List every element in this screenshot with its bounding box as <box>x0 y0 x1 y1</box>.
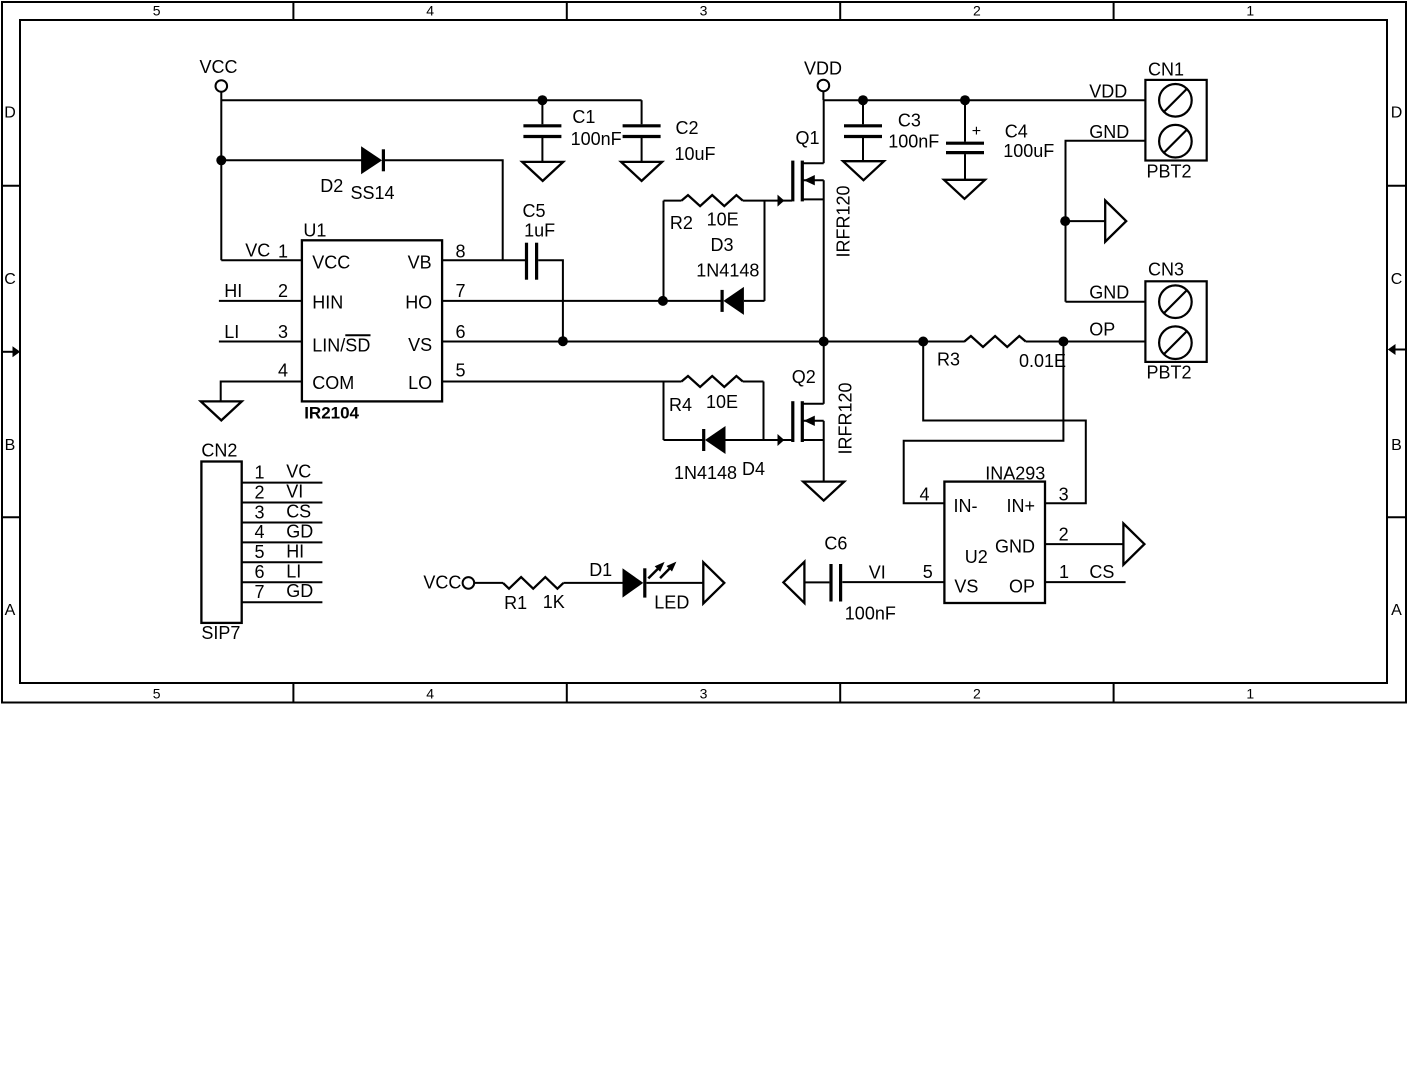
svg-text:3: 3 <box>700 2 708 18</box>
svg-text:GND: GND <box>995 537 1035 557</box>
wire R1 to D1 <box>563 582 622 584</box>
transistor Q1 IRFR120 <box>793 128 854 258</box>
wire GND to CN3 pin 1 <box>1066 282 1146 302</box>
svg-text:GND: GND <box>1089 282 1129 302</box>
svg-text:VC: VC <box>245 240 270 260</box>
capacitor C3 100nF <box>844 100 939 161</box>
svg-text:A: A <box>5 602 16 619</box>
connector CN1 PBT2 <box>1145 60 1206 182</box>
svg-text:VDD: VDD <box>804 59 842 79</box>
junction Q1 source / VS <box>819 337 829 347</box>
U2 pin 3 number <box>1059 485 1069 505</box>
wire VCC rail <box>221 99 641 101</box>
svg-text:LO: LO <box>408 373 432 393</box>
ground C3 <box>843 161 884 180</box>
wire VS rail <box>442 341 965 343</box>
U1 pin 3 LIN stub, net LI <box>219 322 302 342</box>
svg-text:2: 2 <box>973 2 981 18</box>
power flag VCC <box>200 57 238 92</box>
svg-text:VCC: VCC <box>312 252 350 272</box>
svg-text:2: 2 <box>254 482 264 502</box>
svg-text:Q2: Q2 <box>792 367 816 387</box>
svg-text:HI: HI <box>224 281 242 301</box>
junction HO/D3 <box>658 296 668 306</box>
wire VDD rail <box>823 99 1145 101</box>
svg-text:U1: U1 <box>303 220 326 240</box>
svg-text:VCC: VCC <box>200 57 238 77</box>
junction C4 <box>960 95 970 105</box>
svg-text:R1: R1 <box>504 593 527 613</box>
port ground arrow at C6 <box>783 562 804 603</box>
svg-text:IRFR120: IRFR120 <box>834 185 854 257</box>
svg-text:IR2104: IR2104 <box>304 403 359 422</box>
wire IN- sense (R3 right to U2 pin 4) <box>904 342 1064 504</box>
svg-text:1N4148: 1N4148 <box>696 261 759 281</box>
svg-text:100uF: 100uF <box>1003 141 1054 161</box>
wire gate Q2 with arrow <box>764 434 793 446</box>
U1 pin 5 LO wire <box>442 361 663 382</box>
svg-text:100nF: 100nF <box>845 604 896 624</box>
svg-text:D4: D4 <box>742 459 765 479</box>
port LED output arrow <box>703 562 724 603</box>
svg-text:D3: D3 <box>711 235 734 255</box>
svg-text:8: 8 <box>456 241 466 261</box>
svg-text:100nF: 100nF <box>571 129 622 149</box>
U2 pin 1 OP stub, net CS <box>1045 562 1126 582</box>
svg-text:LI: LI <box>224 322 239 342</box>
svg-text:4: 4 <box>426 685 434 701</box>
port GND output arrow <box>1066 201 1127 242</box>
power flag VCC at R1 <box>423 573 474 593</box>
svg-text:VS: VS <box>954 577 978 597</box>
svg-text:6: 6 <box>254 562 264 582</box>
net label VDD at CN1 <box>1089 82 1127 102</box>
U1 pin 7 HO wire <box>442 281 663 301</box>
svg-text:3: 3 <box>254 502 264 522</box>
diode D2 SS14 <box>320 146 394 203</box>
svg-text:SIP7: SIP7 <box>201 623 240 643</box>
svg-text:U2: U2 <box>965 547 988 567</box>
svg-text:CN1: CN1 <box>1148 60 1184 80</box>
svg-text:A: A <box>1391 602 1402 619</box>
wire R3 to CN3 <box>1026 341 1064 343</box>
U1 pin 8 VB stub <box>442 241 525 261</box>
svg-text:CN3: CN3 <box>1148 260 1184 280</box>
power flag VDD <box>804 59 842 101</box>
CN2 pin 6 net LI <box>242 561 323 582</box>
diode D3 1N4148 <box>664 235 765 315</box>
resistor R2 10E <box>664 195 765 301</box>
wire Q2 drain to VS <box>823 342 825 404</box>
wire Q1 source to VS <box>823 180 825 341</box>
wire C5 to VS <box>538 260 563 341</box>
svg-text:6: 6 <box>456 322 466 342</box>
svg-text:C5: C5 <box>523 201 546 221</box>
wire Q1 drain to VDD <box>823 100 825 163</box>
wire VCC to D2 anode <box>221 159 361 161</box>
connector CN2 SIP7 <box>201 441 241 643</box>
svg-text:C: C <box>1391 271 1403 288</box>
svg-text:10E: 10E <box>706 392 738 412</box>
svg-text:+: + <box>972 123 981 140</box>
svg-text:2: 2 <box>973 685 981 701</box>
CN2 pin 1 net VC <box>242 462 323 483</box>
svg-text:IRFR120: IRFR120 <box>836 382 856 454</box>
svg-text:3: 3 <box>1059 485 1069 505</box>
svg-text:1: 1 <box>1246 685 1254 701</box>
svg-text:D: D <box>1391 105 1403 122</box>
svg-text:PBT2: PBT2 <box>1147 363 1192 383</box>
wire gate Q1 with arrow <box>765 195 793 207</box>
svg-text:5: 5 <box>153 2 161 18</box>
svg-text:5: 5 <box>456 361 466 381</box>
svg-text:Q1: Q1 <box>796 128 820 148</box>
svg-text:HO: HO <box>405 293 432 313</box>
junction C3 <box>858 95 868 105</box>
svg-text:3: 3 <box>278 322 288 342</box>
svg-text:5: 5 <box>254 542 264 562</box>
svg-text:COM: COM <box>312 373 354 393</box>
svg-text:SS14: SS14 <box>351 183 395 203</box>
resistor R3 0.01E <box>937 336 1066 371</box>
diode D4 1N4148 <box>664 426 766 483</box>
CN2 pin 7 net GD <box>242 581 323 602</box>
svg-text:10uF: 10uF <box>675 144 716 164</box>
svg-text:PBT2: PBT2 <box>1147 162 1192 182</box>
svg-text:VDD: VDD <box>1089 82 1127 102</box>
CN2 pin 4 net GD <box>242 521 323 542</box>
junction C1 <box>537 95 547 105</box>
svg-text:1: 1 <box>278 241 288 261</box>
U2 pin 4 number <box>920 485 930 505</box>
svg-text:1uF: 1uF <box>524 220 555 240</box>
IC U1 IR2104 gate driver <box>302 220 442 422</box>
svg-text:LI: LI <box>286 561 301 581</box>
junction C5/VS <box>558 336 568 346</box>
svg-text:GND: GND <box>1089 122 1129 142</box>
svg-text:4: 4 <box>254 522 264 542</box>
U1 pin 6 VS stub <box>456 322 466 342</box>
svg-text:INA293: INA293 <box>985 463 1045 483</box>
U1 pin 2 HIN stub, net HI <box>219 281 302 301</box>
resistor R1 1K <box>503 577 565 613</box>
ground C4 <box>944 180 985 199</box>
svg-text:C4: C4 <box>1005 122 1028 142</box>
transistor Q2 IRFR120 <box>792 367 856 455</box>
ground Q2 <box>803 482 844 501</box>
junction VCC/D2 <box>216 155 226 165</box>
IC U2 INA293 current-sense amplifier <box>944 463 1045 603</box>
svg-text:C2: C2 <box>676 118 699 138</box>
svg-text:D2: D2 <box>320 176 343 196</box>
svg-text:CS: CS <box>286 501 311 521</box>
junction R3 right <box>1058 337 1068 347</box>
U1 pin 4 COM stub <box>221 361 302 402</box>
svg-text:4: 4 <box>426 2 434 18</box>
svg-text:VS: VS <box>408 335 432 355</box>
capacitor C2 10uF <box>623 100 716 164</box>
svg-text:VB: VB <box>408 252 432 272</box>
wire VCC vertical to U1 pin 1 <box>220 92 222 260</box>
U2 pin 5 VS stub, net VI <box>842 562 944 583</box>
capacitor C6 100nF <box>824 534 895 624</box>
CN2 pin 3 net CS <box>242 501 323 522</box>
wire OP to CN3 pin 2 <box>1063 320 1145 342</box>
U1 pin 1 VCC stub <box>221 240 302 261</box>
svg-text:4: 4 <box>278 361 288 381</box>
svg-text:7: 7 <box>456 281 466 301</box>
svg-text:10E: 10E <box>707 210 739 230</box>
svg-text:C1: C1 <box>572 107 595 127</box>
U2 pin 2 GND stub <box>1045 524 1123 544</box>
LED D1 <box>589 560 689 613</box>
wire C6 to ground port <box>804 581 829 583</box>
wire VCC to R1 <box>474 582 503 584</box>
capacitor C5 1uF <box>523 201 556 280</box>
svg-text:R4: R4 <box>669 395 692 415</box>
svg-text:C6: C6 <box>824 534 847 554</box>
svg-text:C3: C3 <box>898 110 921 130</box>
svg-text:0.01E: 0.01E <box>1019 351 1066 371</box>
svg-text:OP: OP <box>1009 577 1035 597</box>
svg-text:OP: OP <box>1089 320 1115 340</box>
wire IN+ sense (R3 left to U2 pin 3) <box>923 342 1086 504</box>
svg-text:CN2: CN2 <box>201 441 237 461</box>
svg-text:LIN/SD: LIN/SD <box>312 335 370 355</box>
svg-text:VI: VI <box>869 563 886 583</box>
svg-text:CS: CS <box>1089 562 1114 582</box>
svg-text:B: B <box>5 437 16 454</box>
svg-text:1: 1 <box>254 462 264 482</box>
svg-text:2: 2 <box>278 281 288 301</box>
svg-text:VC: VC <box>286 462 311 482</box>
connector CN3 PBT2 <box>1145 260 1206 383</box>
svg-text:HI: HI <box>286 541 304 561</box>
svg-text:VCC: VCC <box>423 573 461 593</box>
CN2 pin 5 net HI <box>242 541 323 562</box>
ground COM <box>201 401 242 420</box>
svg-text:GD: GD <box>286 581 313 601</box>
svg-text:5: 5 <box>923 562 933 582</box>
svg-text:7: 7 <box>254 582 264 602</box>
svg-text:4: 4 <box>920 485 930 505</box>
svg-text:2: 2 <box>1059 524 1069 544</box>
wire D2 cathode to VB <box>385 160 503 260</box>
svg-text:VI: VI <box>286 482 303 502</box>
wire Q2 source to ground <box>823 421 825 482</box>
svg-text:LED: LED <box>654 593 689 613</box>
svg-text:B: B <box>1391 437 1402 454</box>
svg-text:IN-: IN- <box>954 496 978 516</box>
wire GND from CN1 pin 2 <box>1066 122 1146 302</box>
svg-text:IN+: IN+ <box>1006 496 1035 516</box>
wire D1 to output port <box>647 582 704 584</box>
svg-text:100nF: 100nF <box>888 131 939 151</box>
capacitor C1 100nF <box>523 100 621 162</box>
svg-text:R3: R3 <box>937 350 960 370</box>
svg-text:1: 1 <box>1246 2 1254 18</box>
svg-text:1: 1 <box>1059 562 1069 582</box>
ground C2 <box>621 162 662 181</box>
junction R3 left <box>918 337 928 347</box>
junction GND port <box>1060 216 1070 226</box>
svg-text:D1: D1 <box>589 560 612 580</box>
resistor R4 10E <box>664 376 764 440</box>
svg-text:3: 3 <box>700 685 708 701</box>
svg-text:GD: GD <box>286 521 313 541</box>
port GND arrow at U2 pin 2 <box>1123 524 1144 565</box>
svg-text:1N4148: 1N4148 <box>674 463 737 483</box>
svg-text:5: 5 <box>153 685 161 701</box>
svg-text:HIN: HIN <box>312 293 343 313</box>
CN2 pin 2 net VI <box>242 482 323 503</box>
svg-text:C: C <box>4 271 16 288</box>
capacitor C4 100uF polarized <box>946 100 1054 180</box>
svg-text:R2: R2 <box>670 213 693 233</box>
svg-text:1K: 1K <box>543 592 565 612</box>
ground C1 <box>522 162 563 181</box>
svg-text:D: D <box>4 105 16 122</box>
